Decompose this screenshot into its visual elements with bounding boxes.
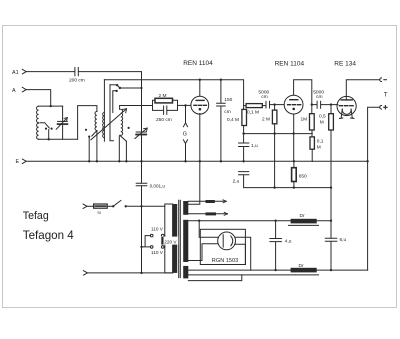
svg-text:0,001,u: 0,001,u (150, 183, 166, 188)
transformer primary box (165, 204, 173, 273)
resistor 1M (311, 105, 313, 114)
capacitor 0,001u (136, 183, 147, 206)
resistor 0,5M (330, 103, 332, 105)
svg-text:220 V: 220 V (164, 239, 177, 244)
terminal E (22, 159, 26, 164)
wire plus rail down (368, 107, 380, 270)
RGN enclosure box (200, 229, 245, 264)
svg-text:Dr: Dr (299, 263, 304, 269)
G pickup jack upper (183, 105, 187, 126)
svg-text:250 cm: 250 cm (156, 117, 172, 123)
svg-text:Dr: Dr (300, 213, 305, 219)
capacitor 6,u (325, 238, 337, 270)
svg-text:RE 134: RE 134 (334, 60, 356, 67)
svg-text:150: 150 (224, 97, 232, 103)
filament loop lower (188, 275, 242, 281)
capacitor 150 cm (220, 79, 222, 81)
svg-text:110 V: 110 V (151, 250, 164, 255)
svg-text:1M: 1M (301, 116, 308, 122)
resistor 650 (293, 160, 295, 162)
capacitor 4,u (270, 221, 282, 270)
switch mains (112, 205, 114, 207)
svg-text:0,5: 0,5 (319, 114, 326, 120)
wire bias to plus rail (312, 160, 367, 162)
svg-text:200 cm: 200 cm (69, 77, 85, 83)
wire L2 tap to E (88, 137, 90, 162)
resistor 0,4M (242, 109, 247, 125)
L2 secondary tap blade (120, 135, 127, 141)
fuse Si (87, 205, 94, 207)
node G dot (184, 104, 186, 106)
V3 filament legs (341, 109, 352, 118)
terminal mains 2 (84, 271, 88, 275)
svg-text:Tefag: Tefag (23, 210, 49, 222)
G pickup jack lower (183, 140, 187, 162)
svg-text:0,1: 0,1 (317, 138, 324, 144)
svg-text:4,u: 4,u (285, 239, 292, 245)
wire E bus (26, 160, 312, 162)
rectifier filament wires (235, 237, 251, 270)
svg-text:REN 1104: REN 1104 (183, 60, 213, 67)
core lines (179, 200, 181, 277)
choke Dr bottom (291, 268, 317, 273)
node grid V2 dot (273, 103, 275, 105)
svg-text:650: 650 (299, 173, 307, 179)
wire L2 bottom to E (96, 131, 98, 162)
resistor 0,1M (244, 105, 247, 107)
box1 bottom edge (39, 138, 78, 140)
capacitor 250 cm (164, 106, 167, 114)
svg-text:A1: A1 (12, 70, 19, 76)
svg-text:2 M: 2 M (159, 93, 167, 99)
rectifier anode wire 1 (199, 221, 218, 238)
box1 right edge (62, 106, 64, 139)
terminal mains 1 (83, 204, 87, 208)
svg-text:T: T (384, 92, 388, 98)
wire tap to box bottom (48, 130, 50, 140)
bias bus y=187.6 (244, 187, 331, 189)
svg-text:0,1 M: 0,1 M (247, 110, 259, 116)
wire varcap to E and below (141, 135, 143, 183)
svg-text:E: E (16, 159, 20, 165)
label 220 V with plug (161, 237, 179, 245)
variable capacitor on antenna line (136, 131, 146, 133)
wire V3 anode to minus terminal (346, 80, 380, 100)
primary winding solid (173, 204, 178, 273)
heater line 2 (188, 213, 227, 215)
tuning capacitor plates (103, 80, 105, 142)
svg-text:Si: Si (97, 210, 101, 215)
wire RC to tube1 grid (178, 104, 192, 106)
choke Dr top (291, 219, 317, 224)
capacitor 1,u (239, 134, 249, 162)
grid leak parallel loop right (167, 100, 178, 110)
wires L2 secondary to E (119, 136, 126, 161)
terminal minus (380, 78, 382, 82)
tube V2 REN 1104 (284, 95, 303, 114)
wire V2 cathode down (293, 114, 295, 161)
band switch on grid feed line (104, 80, 243, 110)
tube V3 RE 134 (337, 96, 356, 115)
rectifier anode wire 2 (188, 244, 218, 261)
svg-text:RGN 1503: RGN 1503 (212, 258, 238, 264)
svg-text:G: G (183, 131, 187, 137)
selector pins (150, 234, 153, 237)
terminal A1 (22, 69, 26, 74)
svg-text:Tefagon 4: Tefagon 4 (23, 229, 74, 242)
svg-text:2,u: 2,u (233, 179, 240, 185)
bus line y=133.6 (244, 133, 313, 135)
variable capacitor C-ant (58, 120, 68, 122)
wire V1 anode top (199, 80, 201, 96)
svg-text:6,u: 6,u (340, 237, 347, 243)
wire mains 2 (87, 272, 172, 274)
node A entry dot (50, 105, 52, 107)
capacitor 5000 cm second (312, 101, 338, 108)
tuning arrow (91, 110, 126, 140)
heater line 1 (188, 200, 226, 202)
svg-text:cm: cm (316, 95, 323, 100)
svg-text:2 M: 2 M (262, 116, 270, 122)
svg-text:cm: cm (224, 110, 230, 115)
wire V1 filament to winding (188, 161, 200, 204)
coil L1 tap switch (40, 123, 49, 128)
terminal A (22, 87, 26, 92)
wire cap to corner x=141.5 (79, 72, 142, 132)
wire A to box1 (26, 90, 51, 107)
box1 top edge (39, 105, 63, 107)
wire V1 cathode down (199, 114, 201, 162)
wire 0,4M bottom to line (243, 126, 245, 134)
wire box1 to L2 (78, 106, 97, 140)
svg-text:1,u: 1,u (251, 143, 258, 149)
grid leak parallel loop left (153, 100, 164, 110)
svg-text:REN 1104: REN 1104 (275, 60, 305, 67)
tube V4 RGN 1503 (218, 232, 236, 250)
svg-text:M: M (317, 144, 321, 150)
wire V2 anode top to coupling node (294, 80, 312, 105)
svg-text:A: A (12, 88, 16, 94)
svg-text:110 V: 110 V (151, 227, 164, 232)
capacitor 200 cm (75, 68, 78, 76)
wire A1 to cap (26, 71, 74, 73)
tube V1 REN 1104 (191, 96, 209, 114)
node anode V2 dot (311, 103, 313, 105)
B+ line from HV winding (188, 220, 331, 222)
svg-text:M: M (320, 119, 324, 125)
terminal plus (380, 106, 382, 110)
capacitor 5000 cm (266, 101, 270, 108)
resistor 2M grid leak V2 (274, 105, 276, 111)
voltage selector link (142, 236, 151, 247)
resistor R-grid 2M (155, 98, 173, 103)
svg-text:0,4 M: 0,4 M (227, 117, 239, 123)
coil L2 primary (95, 112, 97, 131)
coil L2 tap blade (92, 131, 97, 137)
resistor 0,1M grid leak V3 (311, 130, 313, 137)
bottom dc line (188, 269, 367, 271)
coil L2 secondary (121, 109, 123, 135)
filament return line (188, 274, 318, 276)
coil L1 (antenna coil, box left edge) (37, 106, 39, 139)
svg-text:cm: cm (261, 95, 268, 100)
capacitor 2,u (239, 172, 249, 188)
wire L2 secondary top to grid line (120, 106, 153, 110)
secondary winding bars (183, 201, 188, 215)
